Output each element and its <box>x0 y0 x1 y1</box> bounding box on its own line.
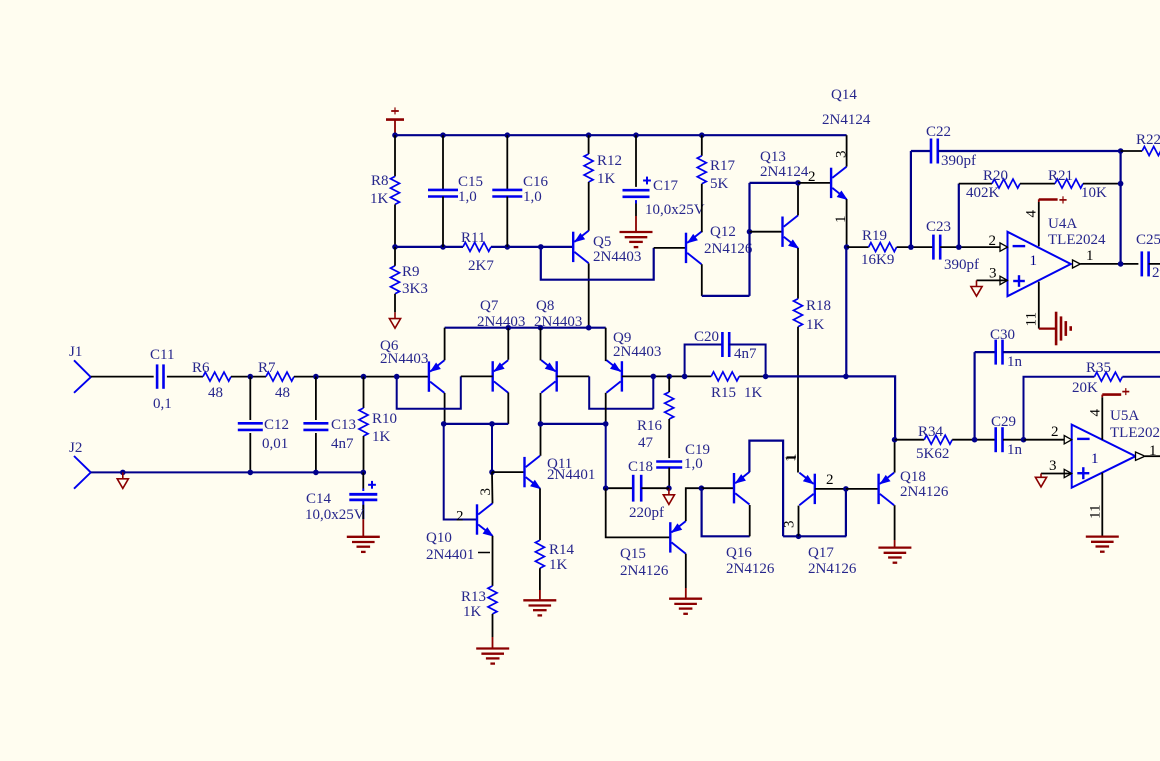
svg-text:0,1: 0,1 <box>153 396 172 412</box>
svg-text:C17: C17 <box>653 178 679 194</box>
svg-text:10,0x25V: 10,0x25V <box>645 202 705 218</box>
svg-text:R20: R20 <box>983 168 1008 184</box>
svg-text:Q7: Q7 <box>480 298 499 314</box>
svg-text:48: 48 <box>208 385 223 401</box>
svg-text:R16: R16 <box>637 418 663 434</box>
svg-text:2N4126: 2N4126 <box>620 563 669 579</box>
svg-text:47: 47 <box>638 435 654 451</box>
svg-text:1K: 1K <box>744 385 763 401</box>
svg-text:C14: C14 <box>306 491 332 507</box>
svg-text:R10: R10 <box>372 411 397 427</box>
svg-text:2: 2 <box>1051 424 1059 440</box>
svg-text:4n7: 4n7 <box>331 436 354 452</box>
svg-text:4: 4 <box>1088 409 1104 417</box>
svg-text:R15: R15 <box>711 385 736 401</box>
svg-text:20K: 20K <box>1072 380 1098 396</box>
svg-text:C18: C18 <box>628 459 653 475</box>
svg-text:1n: 1n <box>1007 442 1023 458</box>
svg-text:R11: R11 <box>461 230 485 246</box>
svg-text:2N4401: 2N4401 <box>426 547 474 563</box>
svg-text:390pf: 390pf <box>941 153 976 169</box>
svg-text:C22: C22 <box>926 124 951 140</box>
svg-text:R8: R8 <box>371 173 389 189</box>
svg-text:R18: R18 <box>806 298 831 314</box>
svg-text:R9: R9 <box>402 264 420 280</box>
svg-text:3: 3 <box>989 266 997 282</box>
svg-text:402K: 402K <box>966 185 1000 201</box>
svg-text:Q5: Q5 <box>593 234 611 250</box>
svg-text:2N4403: 2N4403 <box>613 344 661 360</box>
svg-text:Q15: Q15 <box>620 546 646 562</box>
svg-text:R14: R14 <box>549 542 575 558</box>
svg-text:11: 11 <box>1024 312 1040 326</box>
svg-text:2N4403: 2N4403 <box>380 351 428 367</box>
svg-text:16K9: 16K9 <box>861 252 894 268</box>
svg-text:Q18: Q18 <box>900 469 926 485</box>
svg-text:2u: 2u <box>1152 265 1160 281</box>
svg-text:10K: 10K <box>1081 185 1107 201</box>
svg-text:0,01: 0,01 <box>262 436 288 452</box>
svg-text:R19: R19 <box>862 228 887 244</box>
svg-text:1K: 1K <box>597 171 616 187</box>
svg-text:3: 3 <box>478 488 494 496</box>
svg-text:3: 3 <box>1049 458 1057 474</box>
svg-text:2N4403: 2N4403 <box>534 314 582 330</box>
svg-text:R17: R17 <box>710 158 736 174</box>
svg-text:1n: 1n <box>1007 354 1023 370</box>
svg-text:C12: C12 <box>264 417 289 433</box>
svg-text:C29: C29 <box>991 414 1016 430</box>
svg-text:2: 2 <box>826 472 834 488</box>
svg-text:3K3: 3K3 <box>402 281 428 297</box>
svg-text:Q8: Q8 <box>536 298 554 314</box>
svg-text:2: 2 <box>989 233 997 249</box>
svg-text:1K: 1K <box>372 429 391 445</box>
svg-text:2N4401: 2N4401 <box>547 467 595 483</box>
svg-text:Q16: Q16 <box>726 545 752 561</box>
svg-text:48: 48 <box>275 385 290 401</box>
svg-text:2N4126: 2N4126 <box>726 561 775 577</box>
svg-text:1,0: 1,0 <box>523 189 542 205</box>
svg-text:11: 11 <box>1088 505 1104 519</box>
svg-text:1: 1 <box>1086 248 1094 264</box>
svg-text:C23: C23 <box>926 219 951 235</box>
svg-text:R35: R35 <box>1086 360 1111 376</box>
svg-text:R6: R6 <box>192 360 210 376</box>
svg-text:C11: C11 <box>150 347 174 363</box>
svg-text:R22: R22 <box>1136 132 1160 148</box>
svg-text:1K: 1K <box>549 557 568 573</box>
svg-text:2N4126: 2N4126 <box>704 241 753 257</box>
svg-text:2N4126: 2N4126 <box>900 484 949 500</box>
svg-text:1K: 1K <box>463 604 482 620</box>
svg-text:10,0x25V: 10,0x25V <box>305 507 365 523</box>
svg-text:390pf: 390pf <box>944 257 979 273</box>
svg-text:3: 3 <box>782 521 798 529</box>
svg-text:C25: C25 <box>1136 232 1160 248</box>
svg-text:1: 1 <box>833 216 849 224</box>
svg-text:R12: R12 <box>597 153 622 169</box>
svg-text:C30: C30 <box>990 327 1015 343</box>
svg-text:Q17: Q17 <box>808 545 834 561</box>
svg-text:R13: R13 <box>461 589 486 605</box>
svg-text:220pf: 220pf <box>629 505 664 521</box>
svg-text:2N4124: 2N4124 <box>822 112 871 128</box>
svg-text:R21: R21 <box>1048 168 1073 184</box>
svg-text:Q10: Q10 <box>426 530 452 546</box>
svg-text:C20: C20 <box>694 329 719 345</box>
svg-text:5K: 5K <box>710 176 729 192</box>
svg-text:C16: C16 <box>523 174 549 190</box>
svg-text:R7: R7 <box>258 360 276 376</box>
svg-text:R34: R34 <box>918 424 944 440</box>
svg-text:2N4126: 2N4126 <box>808 561 857 577</box>
svg-text:2: 2 <box>808 169 816 185</box>
svg-text:TLE2024: TLE2024 <box>1048 232 1106 248</box>
svg-text:C15: C15 <box>458 174 483 190</box>
svg-text:2: 2 <box>456 509 464 525</box>
svg-text:2N4124: 2N4124 <box>760 164 809 180</box>
svg-text:1K: 1K <box>806 317 825 333</box>
svg-text:2N4403: 2N4403 <box>477 314 525 330</box>
svg-text:U4A: U4A <box>1048 216 1077 232</box>
svg-text:J2: J2 <box>69 440 82 456</box>
svg-text:C13: C13 <box>331 417 356 433</box>
svg-text:1K: 1K <box>370 191 389 207</box>
svg-text:4n7: 4n7 <box>734 346 757 362</box>
svg-text:Q14: Q14 <box>831 87 857 103</box>
svg-text:U5A: U5A <box>1110 408 1139 424</box>
svg-text:1,0: 1,0 <box>684 456 703 472</box>
svg-text:5K62: 5K62 <box>916 446 949 462</box>
svg-text:1: 1 <box>1091 451 1099 467</box>
svg-text:Q12: Q12 <box>710 224 736 240</box>
svg-text:3: 3 <box>834 151 850 159</box>
svg-text:1: 1 <box>783 455 799 463</box>
svg-text:4: 4 <box>1024 210 1040 218</box>
svg-text:J1: J1 <box>69 344 82 360</box>
svg-text:Q13: Q13 <box>760 149 786 165</box>
svg-text:1,0: 1,0 <box>458 189 477 205</box>
svg-text:TLE202: TLE202 <box>1110 425 1160 441</box>
svg-text:1: 1 <box>1030 253 1038 269</box>
svg-text:2N4403: 2N4403 <box>593 249 641 265</box>
svg-text:2K7: 2K7 <box>468 258 494 274</box>
